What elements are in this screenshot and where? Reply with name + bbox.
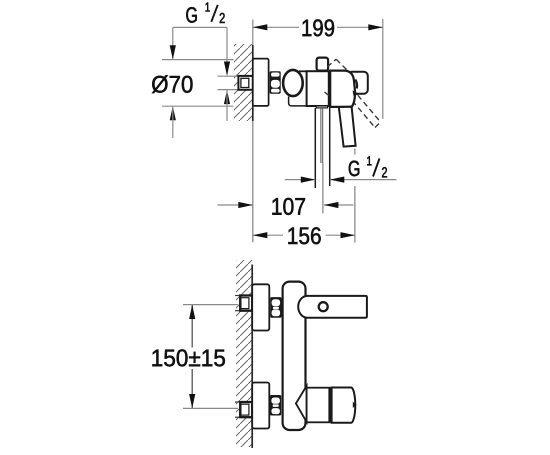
150±15 text: [152, 349, 224, 366]
150±15 extension lines: [183, 304, 238, 306]
Ø70 extension lines: [162, 59, 234, 61]
outlet nipple bore: [320, 108, 322, 163]
wall face line (top view): [252, 20, 254, 46]
G 1/2 top leader: [173, 26, 227, 28]
main vertical body: [283, 282, 306, 430]
G 1/2 top label: [186, 3, 224, 23]
shower arm: [298, 296, 367, 318]
end cap of handle: [348, 72, 368, 94]
body top edge to ball: [299, 70, 307, 72]
escutcheon: [253, 59, 269, 106]
outlet nipple shoulder: [316, 106, 327, 108]
lower union nut: [270, 395, 281, 416]
dimension 107: [218, 204, 253, 206]
arrow up to pipe bottom: [224, 90, 230, 104]
upper wall fitting: [240, 296, 252, 311]
dimension 199: [253, 19, 383, 119]
lever root marks: [355, 80, 357, 89]
lower escutcheon: [252, 383, 269, 429]
supply pipe stub: [218, 76, 239, 89]
shower arm hole: [319, 302, 328, 311]
G 1/2 right label: [349, 156, 387, 177]
top cap: [317, 58, 329, 71]
ball joint: [283, 70, 303, 96]
dimension 156: [253, 234, 283, 236]
wall hatch (bottom view): [236, 260, 252, 447]
union nut: [270, 71, 281, 94]
under-ball body block: [289, 97, 307, 106]
knob indicator nub: [353, 402, 357, 408]
150±15 dimension line: [191, 305, 193, 347]
wall fitting inner square: [241, 78, 249, 87]
solid lever arm (down position): [339, 107, 356, 147]
arrow down to pipe top: [224, 62, 230, 76]
Ø70 text: [152, 75, 193, 93]
arrow up to escutcheon bottom: [170, 106, 176, 120]
lever cartridge body: [330, 71, 355, 107]
outlet nipple outer walls: [314, 108, 316, 188]
knob cone: [296, 386, 307, 422]
extension line below lever tip: [354, 149, 356, 155]
arrow down to escutcheon top: [170, 45, 176, 59]
extension line from bore: [322, 163, 324, 214]
knob main cylinder: [332, 388, 356, 423]
dashed alternate lever (raised): [325, 59, 381, 127]
knob junction: [329, 387, 332, 423]
wall fitting square: [238, 76, 252, 90]
mid body: [307, 71, 329, 106]
knob ring: [307, 388, 330, 423]
wall face line (bottom view): [251, 265, 253, 449]
upper union nut: [270, 297, 281, 318]
supply stubs behind wall: [235, 296, 241, 418]
lower wall fitting: [240, 402, 252, 417]
G 1/2 right leader/dimension: [285, 179, 316, 181]
wall hatch (top view): [234, 44, 252, 121]
upper escutcheon: [252, 284, 269, 330]
